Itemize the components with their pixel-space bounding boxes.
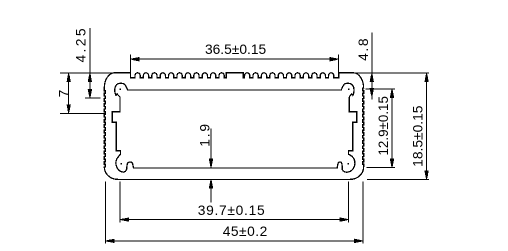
extrusion outer profile with fins and knurled sides bbox=[104, 73, 363, 180]
screw center dot top-right bbox=[348, 89, 350, 91]
screw center dot bottom-left bbox=[121, 163, 123, 165]
svg-text:45±0.2: 45±0.2 bbox=[223, 224, 268, 239]
dimension 39.7&#177;0.15 bottom inner width bbox=[120, 182, 348, 223]
dimension 4.8 right bbox=[356, 33, 374, 100]
svg-text:12.9±0.15: 12.9±0.15 bbox=[376, 96, 391, 155]
dimension 1.9 bottom wall thickness bbox=[197, 122, 213, 202]
dimension 12.9&#177;0.15 right inner height bbox=[366, 89, 395, 168]
svg-text:4.25: 4.25 bbox=[74, 26, 89, 62]
svg-text:1.9: 1.9 bbox=[197, 122, 212, 147]
svg-text:18.5±0.15: 18.5±0.15 bbox=[411, 105, 426, 167]
screw center dot top-left bbox=[119, 89, 121, 91]
dimension 36.5&#177;0.15 top width bbox=[130, 42, 338, 73]
svg-text:36.5±0.15: 36.5±0.15 bbox=[205, 42, 267, 57]
dimension 7 left bbox=[56, 73, 114, 113]
dimension 18.5&#177;0.15 overall height bbox=[356, 73, 429, 179]
svg-text:4.8: 4.8 bbox=[356, 37, 371, 61]
screw center dot bottom-right bbox=[347, 163, 349, 165]
extrusion inner cavity with corner screw bosses and PCB slots bbox=[112, 83, 356, 172]
dimension 45&#177;0.2 overall width bbox=[106, 182, 363, 244]
svg-text:39.7±0.15: 39.7±0.15 bbox=[198, 203, 266, 218]
dimension 4.25 left bbox=[74, 26, 101, 98]
